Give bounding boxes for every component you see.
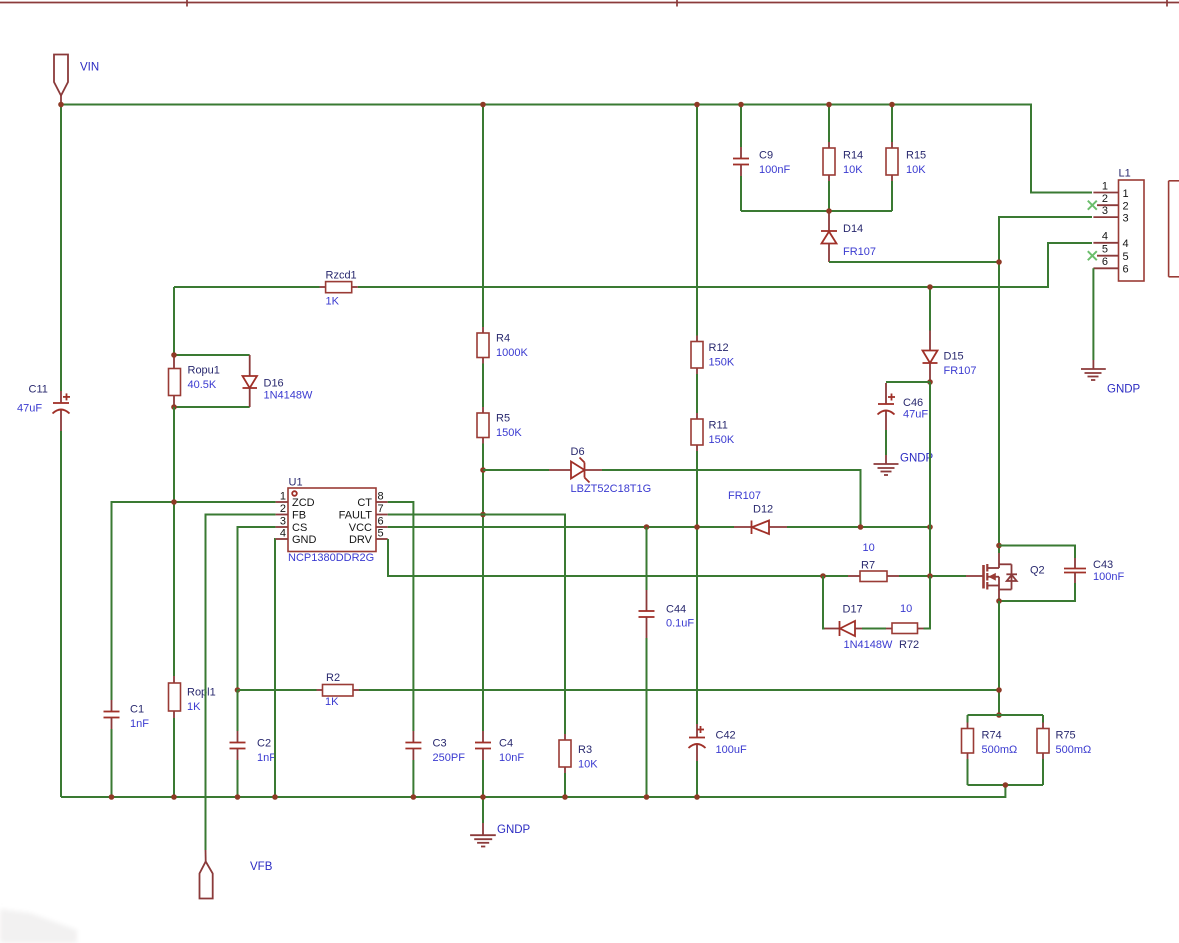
diode D14: [821, 211, 837, 262]
svg-text:3: 3: [1123, 213, 1129, 225]
svg-text:6: 6: [378, 516, 384, 528]
svg-text:GNDP: GNDP: [900, 453, 934, 465]
wire left column upper: [60, 105, 62, 392]
svg-text:10K: 10K: [578, 759, 598, 771]
junction top rail R4: [480, 102, 486, 108]
svg-text:40.5K: 40.5K: [188, 379, 217, 391]
svg-text:U1: U1: [289, 477, 303, 489]
capacitor C44: [639, 590, 655, 638]
svg-text:1N4148W: 1N4148W: [844, 639, 894, 651]
wire R72 up to gate net: [924, 576, 931, 629]
wire D6 right to VCC: [602, 470, 861, 527]
wire C44 to rail: [646, 638, 648, 797]
svg-text:10nF: 10nF: [499, 752, 524, 764]
svg-text:D14: D14: [843, 223, 863, 235]
junction top rail C9: [738, 102, 744, 108]
wire L1 pin6 down: [1092, 268, 1094, 360]
svg-text:1K: 1K: [325, 696, 339, 708]
port VIN: [54, 55, 68, 105]
diode D16: [243, 355, 258, 407]
wire x174 upper: [173, 287, 175, 355]
svg-text:R72: R72: [899, 639, 919, 651]
svg-text:CS: CS: [292, 522, 307, 534]
junction top rail VIN: [58, 102, 64, 108]
svg-text:GNDP: GNDP: [497, 824, 531, 836]
junction VCC D6: [858, 524, 864, 530]
resistor R14: [823, 142, 835, 181]
wire bottom rail: [61, 785, 1005, 797]
svg-text:FB: FB: [292, 510, 306, 522]
capacitor C4: [475, 731, 491, 760]
svg-text:100nF: 100nF: [1093, 571, 1124, 583]
resistor R5: [477, 407, 489, 444]
svg-text:6: 6: [1123, 264, 1129, 276]
svg-text:FR107: FR107: [843, 246, 876, 258]
junction R2 sense: [996, 687, 1002, 693]
wire FAULT net: [388, 515, 565, 735]
wire R12 column top: [696, 105, 698, 336]
svg-text:4: 4: [1102, 231, 1108, 243]
wire C42 to rail: [696, 761, 698, 797]
diode D12: [734, 521, 787, 535]
capacitor C1: [104, 700, 120, 729]
junction shunt bottom: [1003, 782, 1009, 788]
junction VCC R11: [694, 524, 700, 530]
svg-text:GNDP: GNDP: [1107, 384, 1141, 396]
svg-text:FAULT: FAULT: [339, 510, 373, 522]
svg-text:10K: 10K: [843, 164, 863, 176]
svg-text:250PF: 250PF: [433, 752, 466, 764]
wire Rzcd1 net right to L1 pin4: [358, 243, 1092, 287]
svg-text:C3: C3: [433, 738, 447, 750]
junction CS C2: [235, 687, 241, 693]
capacitor C3: [405, 731, 421, 760]
svg-text:C43: C43: [1093, 559, 1113, 571]
svg-text:2: 2: [1102, 193, 1108, 205]
sheet border bottom line: [0, 0, 1179, 7]
diode D15: [923, 331, 938, 383]
svg-text:GND: GND: [292, 534, 317, 546]
junction top rail R14: [826, 102, 832, 108]
wire C3 to rail: [412, 760, 414, 797]
svg-text:R11: R11: [709, 420, 728, 432]
resistor R12: [691, 336, 703, 375]
junction rail C3: [411, 794, 417, 800]
svg-text:D12: D12: [753, 504, 773, 516]
svg-text:R2: R2: [326, 672, 340, 684]
svg-text:1N4148W: 1N4148W: [264, 390, 314, 402]
wire R15 top: [891, 105, 893, 143]
wire D15 top: [929, 287, 931, 331]
wire source stub: [998, 598, 1000, 601]
ground GNDP L1: [1081, 360, 1106, 380]
diode D17: [825, 621, 863, 636]
svg-text:5: 5: [1123, 251, 1129, 263]
svg-text:L1: L1: [1119, 168, 1131, 180]
junction ZCD x174: [171, 499, 177, 505]
wire Rzcd1 net left: [174, 286, 320, 288]
wire CT net: [388, 502, 414, 731]
junction R7 out: [927, 573, 933, 579]
wire C9 top: [740, 105, 742, 148]
svg-text:NCP1380DDR2G: NCP1380DDR2G: [288, 552, 374, 564]
svg-text:Rzcd1: Rzcd1: [326, 270, 357, 282]
junction drain: [996, 543, 1002, 549]
svg-text:10K: 10K: [906, 164, 926, 176]
wire C2 to rail: [237, 760, 239, 797]
wire L1 pin3 net down: [999, 217, 1092, 553]
svg-text:R3: R3: [578, 744, 592, 756]
svg-text:5: 5: [378, 528, 384, 540]
svg-text:3: 3: [280, 516, 286, 528]
wire R2 net right: [359, 689, 999, 691]
wire R11 down to C42: [696, 451, 698, 724]
junction rail GND: [272, 794, 278, 800]
junction VCC C44: [644, 524, 650, 530]
wire C9 bottom: [740, 176, 742, 211]
capacitor C9: [733, 147, 749, 176]
connector T1 partial: [1169, 181, 1179, 277]
svg-text:C4: C4: [499, 738, 513, 750]
ground GNDP C46: [874, 430, 899, 475]
wire D6 left: [483, 469, 549, 471]
svg-text:150K: 150K: [496, 427, 522, 439]
wire Ropu1 top bus: [174, 354, 250, 356]
svg-text:2: 2: [1123, 201, 1129, 213]
wire x930 mid: [929, 382, 931, 576]
svg-text:150K: 150K: [709, 357, 735, 369]
svg-text:C44: C44: [666, 604, 686, 616]
wire C44 top: [646, 527, 648, 590]
resistor R15: [886, 142, 898, 181]
junction rail C1: [109, 794, 115, 800]
svg-text:DRV: DRV: [349, 534, 373, 546]
junction rail C44: [644, 794, 650, 800]
junction R4col FAULT: [480, 512, 486, 518]
svg-text:8: 8: [378, 491, 384, 503]
no-connect X pin5: [1088, 251, 1097, 260]
svg-text:C11: C11: [29, 384, 48, 396]
wire x174 mid: [173, 407, 175, 676]
svg-text:1: 1: [280, 491, 286, 503]
junction R5 D6: [480, 467, 486, 473]
svg-text:0.1uF: 0.1uF: [666, 618, 694, 630]
svg-text:1K: 1K: [326, 296, 340, 308]
svg-text:ZCD: ZCD: [292, 497, 315, 509]
junction snubber mid: [826, 208, 832, 214]
wire R12 to R11: [696, 374, 698, 413]
svg-text:D16: D16: [264, 378, 284, 390]
svg-text:500mΩ: 500mΩ: [1056, 744, 1092, 756]
transistor Q2: [966, 553, 1017, 598]
resistor Ropl1: [169, 676, 181, 718]
svg-text:R7: R7: [861, 560, 875, 572]
wire D17 to R72: [862, 628, 886, 630]
wire R15 bottom: [891, 181, 893, 211]
resistor R74: [962, 715, 974, 785]
junction VCC D15col: [927, 524, 933, 530]
junction Rzcd1 D15: [927, 284, 933, 290]
svg-text:R4: R4: [496, 333, 510, 345]
wire drain stub: [998, 546, 1000, 554]
capacitor C43: [1064, 558, 1086, 583]
wire R7 to gate: [899, 575, 966, 577]
junction rail Ropl1: [171, 794, 177, 800]
svg-text:C42: C42: [716, 730, 736, 742]
zener diode D6: [549, 458, 602, 483]
svg-text:C2: C2: [257, 738, 271, 750]
resistor R3: [559, 734, 571, 773]
resistor R2: [317, 685, 360, 697]
svg-text:500mΩ: 500mΩ: [982, 744, 1018, 756]
svg-text:4: 4: [1123, 238, 1129, 250]
no-connect X pin2: [1088, 201, 1097, 210]
svg-text:VCC: VCC: [349, 522, 372, 534]
svg-text:1: 1: [1123, 188, 1129, 200]
wire R4 column top: [482, 105, 484, 328]
svg-text:150K: 150K: [709, 434, 735, 446]
wire snubber bottom bus: [741, 210, 892, 212]
junction rail C42: [694, 794, 700, 800]
resistor R75: [1037, 715, 1049, 785]
capacitor C2: [230, 731, 246, 760]
svg-text:VFB: VFB: [250, 861, 273, 873]
svg-text:Ropu1: Ropu1: [188, 365, 220, 377]
resistor R4: [477, 327, 489, 364]
svg-text:100nF: 100nF: [759, 164, 790, 176]
svg-text:LBZT52C18T1G: LBZT52C18T1G: [571, 483, 652, 495]
svg-text:47uF: 47uF: [17, 403, 42, 415]
resistor R7: [848, 571, 899, 582]
junction DRV D17: [820, 573, 826, 579]
wire ZCD net: [112, 502, 276, 700]
capacitor C11: [53, 391, 71, 431]
svg-text:R5: R5: [496, 413, 510, 425]
wire C46 bus: [886, 381, 930, 383]
svg-text:5: 5: [1102, 244, 1108, 256]
svg-text:2: 2: [280, 503, 286, 515]
junction rail R3: [562, 794, 568, 800]
svg-text:100uF: 100uF: [716, 744, 747, 756]
svg-text:R15: R15: [906, 150, 926, 162]
svg-text:C1: C1: [130, 704, 144, 716]
svg-text:FR107: FR107: [728, 490, 761, 502]
wire left column lower: [60, 431, 62, 797]
svg-text:R75: R75: [1056, 730, 1076, 742]
wire D17 branch left: [823, 576, 825, 629]
wire R74 R75 top bus: [968, 714, 1044, 716]
resistor R11: [691, 413, 703, 451]
wire C2 top: [237, 690, 239, 731]
wire Ropu1 bottom bus: [174, 406, 250, 408]
junction top rail R15: [889, 102, 895, 108]
connector L1: [1093, 180, 1144, 281]
wire R5 down to C4: [482, 444, 484, 732]
wire Ropl1 to rail: [173, 718, 175, 797]
wire source down: [998, 601, 1000, 715]
svg-text:47uF: 47uF: [903, 409, 928, 421]
junction D15 C46: [927, 379, 933, 385]
svg-text:C46: C46: [903, 397, 923, 409]
capacitor C46: [878, 383, 896, 430]
wire R2 net left: [238, 689, 317, 691]
svg-text:3: 3: [1102, 205, 1108, 217]
wire CS net: [238, 527, 276, 690]
svg-text:R12: R12: [709, 342, 729, 354]
svg-text:D15: D15: [944, 351, 964, 363]
svg-text:R74: R74: [982, 730, 1002, 742]
svg-text:CT: CT: [357, 497, 372, 509]
svg-text:1nF: 1nF: [130, 718, 149, 730]
wire D12 to D15 column: [787, 526, 930, 528]
resistor Ropu1: [169, 355, 181, 407]
wire D14 out: [829, 261, 999, 263]
wire R14 bottom: [828, 181, 830, 211]
port VFB: [200, 850, 213, 899]
junction top rail R12: [694, 102, 700, 108]
corner shading: [0, 909, 77, 943]
svg-text:4: 4: [280, 528, 286, 540]
wire C43 top bus: [999, 546, 1075, 559]
svg-text:1nF: 1nF: [257, 752, 276, 764]
ground GNDP bottom: [470, 797, 496, 847]
junction rail C2: [235, 794, 241, 800]
svg-text:6: 6: [1102, 256, 1108, 268]
wire GND pin4: [274, 539, 277, 797]
svg-text:7: 7: [378, 503, 384, 515]
svg-text:Ropl1: Ropl1: [187, 687, 216, 699]
svg-text:Q2: Q2: [1030, 565, 1045, 577]
IC U1 NCP1380: [276, 488, 388, 552]
wire VIN top rail: [61, 105, 1092, 193]
svg-text:D17: D17: [843, 604, 863, 616]
svg-text:R14: R14: [843, 150, 863, 162]
junction Ropu1 top: [171, 352, 177, 358]
wire C43 bottom bus: [999, 583, 1075, 601]
svg-text:1000K: 1000K: [496, 347, 528, 359]
svg-text:10: 10: [863, 542, 875, 554]
resistor R72: [886, 623, 924, 634]
svg-text:VIN: VIN: [80, 62, 99, 74]
junction Ropu1 bottom: [171, 404, 177, 410]
wire R3 to rail: [564, 773, 566, 797]
wire R14 top: [828, 105, 830, 143]
wire DRV net: [388, 539, 848, 576]
resistor Rzcd1: [320, 282, 358, 293]
wire C4 to rail: [482, 760, 484, 797]
svg-text:1: 1: [1102, 181, 1108, 193]
junction rail GNDP: [480, 794, 486, 800]
svg-text:10: 10: [900, 603, 912, 615]
svg-text:1K: 1K: [187, 701, 201, 713]
wire VCC pin6 to D12: [388, 526, 734, 528]
wire C1 to rail: [111, 729, 113, 797]
capacitor C42: [689, 724, 706, 761]
junction R74 bus: [996, 712, 1002, 718]
svg-text:C9: C9: [759, 150, 773, 162]
svg-text:D6: D6: [571, 446, 585, 458]
junction D14 out: [996, 259, 1002, 265]
wire FB net: [206, 515, 276, 851]
wire R4 to R5: [482, 364, 484, 408]
junction source: [996, 598, 1002, 604]
svg-text:FR107: FR107: [944, 365, 977, 377]
wire R74 R75 bottom bus: [968, 784, 1044, 786]
